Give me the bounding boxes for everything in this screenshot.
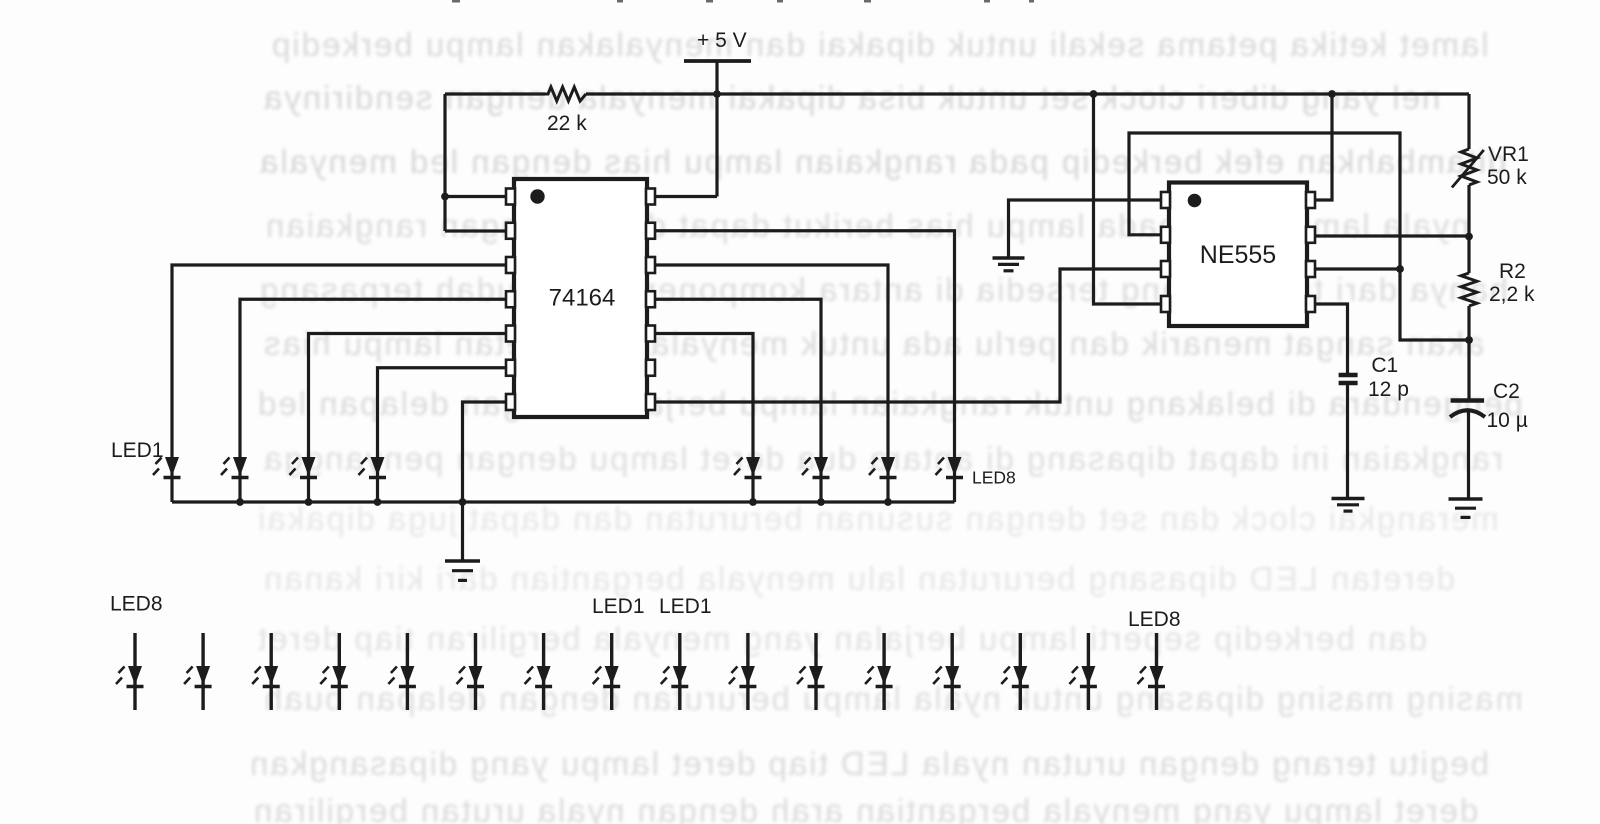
svg-text:22 k: 22 k	[547, 112, 587, 135]
label LED8 bottom right	[1128, 608, 1181, 631]
LED legend LED3 (11)	[797, 633, 825, 710]
junction pins 1-2 tie	[441, 193, 449, 201]
junction Vcc / top rail	[1328, 90, 1336, 98]
LED legend LED4 (12)	[865, 633, 893, 710]
label LED1 bottom mid-right	[659, 595, 712, 618]
svg-text:C1: C1	[1371, 354, 1398, 377]
label R2	[1499, 260, 1526, 283]
wire clock NE555 out to 74164 pin 8	[655, 269, 1160, 402]
label 50 k	[1487, 166, 1527, 189]
resistor R2 2,2 k	[1461, 273, 1477, 306]
label C1	[1371, 354, 1398, 377]
wire rail corner down to VR1	[1467, 94, 1470, 149]
LED LED5	[734, 457, 762, 502]
svg-text:LED1: LED1	[659, 595, 712, 618]
LED legend LED5 (13)	[933, 633, 961, 710]
wire C1 to ground	[1346, 383, 1349, 499]
svg-text:10 µ: 10 µ	[1487, 409, 1528, 432]
label LED1	[111, 439, 164, 462]
LED legend LED1 (8)	[593, 633, 621, 710]
svg-text:2,2 k: 2,2 k	[1489, 283, 1535, 306]
LED legend LED2 (10)	[729, 633, 757, 710]
label VR1	[1488, 143, 1529, 166]
junction cathode rail x377	[374, 498, 382, 506]
label 12 p	[1368, 378, 1409, 401]
LED LED8	[936, 457, 964, 502]
wire 74164 pin 13 to LED8 anode	[655, 231, 955, 457]
junction cathode rail x888	[884, 498, 892, 506]
LED legend LED6 (14)	[1001, 633, 1029, 710]
wire NE555 pin 1 to ground	[1009, 200, 1163, 257]
power +5V supply bar	[684, 59, 751, 63]
svg-text:LED8: LED8	[110, 593, 163, 616]
junction reset / top rail	[1090, 90, 1098, 98]
label LED1 bottom mid-left	[592, 595, 645, 618]
wire 74164 pin 11 to LED6 anode	[655, 299, 821, 457]
op IC U2 NE555 timer	[1161, 183, 1315, 327]
LED legend LED7 (15)	[1069, 633, 1097, 710]
svg-text:74164: 74164	[549, 285, 616, 312]
LED legend LED6 (3)	[252, 633, 280, 710]
wire 74164 pin 1 stub	[445, 195, 508, 198]
ground GND2	[993, 258, 1025, 271]
LED legend LED7 (2)	[184, 633, 212, 710]
LED LED7	[869, 457, 897, 502]
wire top rail right of R1	[586, 92, 1469, 95]
op IC U1 74164 shift register	[506, 179, 655, 417]
LED legend LED1 (9)	[661, 633, 689, 710]
label 74164	[549, 285, 616, 312]
svg-text:LED8: LED8	[972, 468, 1016, 488]
wire R2 bottom to C2	[1467, 306, 1470, 400]
wire top rail left of R1	[445, 92, 545, 95]
capacitor C2 10 µ electrolytic	[1450, 401, 1485, 418]
label C2	[1493, 380, 1520, 403]
LED legend LED3 (6)	[457, 633, 485, 710]
wire NE555 trigger/threshold loop	[1129, 133, 1469, 340]
capacitor C1 12 p	[1339, 375, 1358, 383]
wire C2 to ground	[1467, 410, 1470, 499]
junction VR1 / R2 / pin2R	[1465, 233, 1473, 241]
wire VR1 bottom to node	[1467, 185, 1470, 273]
wire NE555 pin 3R to threshold line	[1314, 267, 1400, 270]
junction threshold cross	[1396, 265, 1404, 273]
svg-text:+ 5 V: + 5 V	[697, 29, 747, 52]
LED LED6	[802, 457, 830, 502]
wire +5V drop to rail and pin 14	[715, 61, 718, 197]
label 22 k	[547, 112, 587, 135]
junction R2 / C2 / threshold	[1465, 336, 1473, 344]
junction cathode rail x308	[305, 498, 313, 506]
ground GND3	[1332, 499, 1365, 512]
wire 74164 pin 2 stub	[445, 229, 508, 232]
junction +5V / top rail	[713, 90, 721, 98]
junction cathode rail x462	[459, 498, 467, 506]
wire feedback left vertical	[443, 94, 446, 231]
wire NE555 reset to rail	[1094, 94, 1163, 304]
wire 74164 pin 4 to LED2 anode	[240, 299, 506, 457]
LED legend LED2 (7)	[525, 633, 553, 710]
LED LED3	[290, 457, 318, 502]
ground GND1	[445, 561, 480, 580]
label NE555	[1200, 241, 1276, 269]
LED legend LED8 (16)	[1138, 633, 1166, 710]
svg-text:R2: R2	[1499, 260, 1526, 283]
LED LED2	[221, 457, 249, 502]
svg-text:VR1: VR1	[1488, 143, 1529, 166]
LED LED4	[359, 457, 387, 502]
label + 5 V	[697, 29, 747, 52]
junction cathode rail x753	[749, 498, 757, 506]
wire NE555 pin 2R to VR1/R2 node	[1314, 234, 1469, 237]
svg-text:LED1: LED1	[111, 439, 164, 462]
wire 74164 pin 3 to LED1 anode	[172, 265, 506, 457]
svg-text:C2: C2	[1493, 380, 1520, 403]
wire 74164 pin 12 to LED7 anode	[655, 265, 888, 457]
LED legend LED8 (1)	[116, 633, 144, 710]
svg-text:12 p: 12 p	[1368, 378, 1409, 401]
LED legend LED5 (4)	[320, 633, 348, 710]
label LED8 bottom left	[110, 593, 163, 616]
wire 74164 pin 10 to LED5 anode	[655, 334, 753, 458]
ground GND4	[1449, 499, 1483, 517]
svg-text:NE555: NE555	[1200, 241, 1276, 269]
resistor R1 22 k	[545, 87, 586, 101]
wire 74164 pin 7 to ground	[463, 402, 507, 561]
svg-text:50 k: 50 k	[1487, 166, 1527, 189]
LED LED1	[153, 457, 181, 502]
label 10 µ	[1487, 409, 1528, 432]
junction cathode rail x240	[236, 498, 244, 506]
label LED8 top row	[972, 468, 1016, 488]
svg-text:LED1: LED1	[592, 595, 645, 618]
potentiometer VR1 50 k	[1452, 149, 1484, 188]
wire 74164 pin 6 to LED4 anode	[378, 368, 507, 457]
wire NE555 pin 4R to C1	[1314, 304, 1348, 375]
wire LED cathode rail	[172, 500, 955, 503]
wire 74164 pin 14 stub	[655, 195, 717, 198]
LED legend LED4 (5)	[388, 633, 416, 710]
wire 74164 pin 5 to LED3 anode	[309, 334, 507, 458]
wire NE555 Vcc to rail	[1314, 94, 1332, 200]
label 2,2 k	[1489, 283, 1535, 306]
svg-text:LED8: LED8	[1128, 608, 1181, 631]
junction cathode rail x821	[817, 498, 825, 506]
